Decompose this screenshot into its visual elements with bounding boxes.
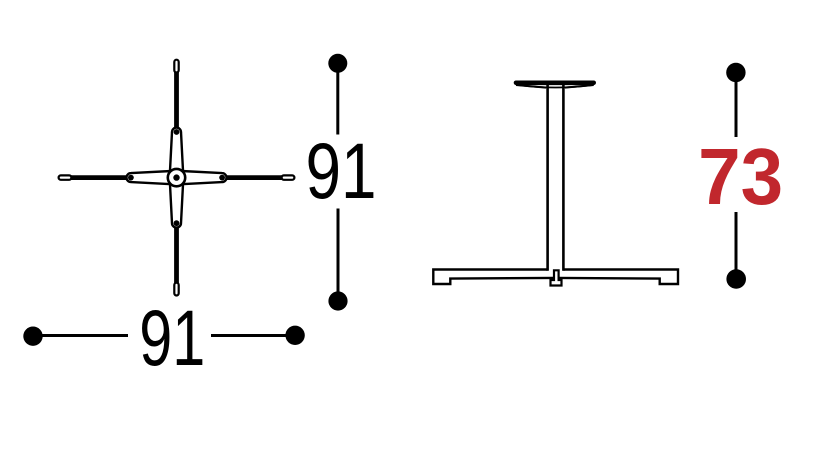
svg-text:91: 91 (306, 126, 377, 215)
svg-text:91: 91 (139, 293, 205, 382)
svg-text:73: 73 (698, 132, 783, 221)
